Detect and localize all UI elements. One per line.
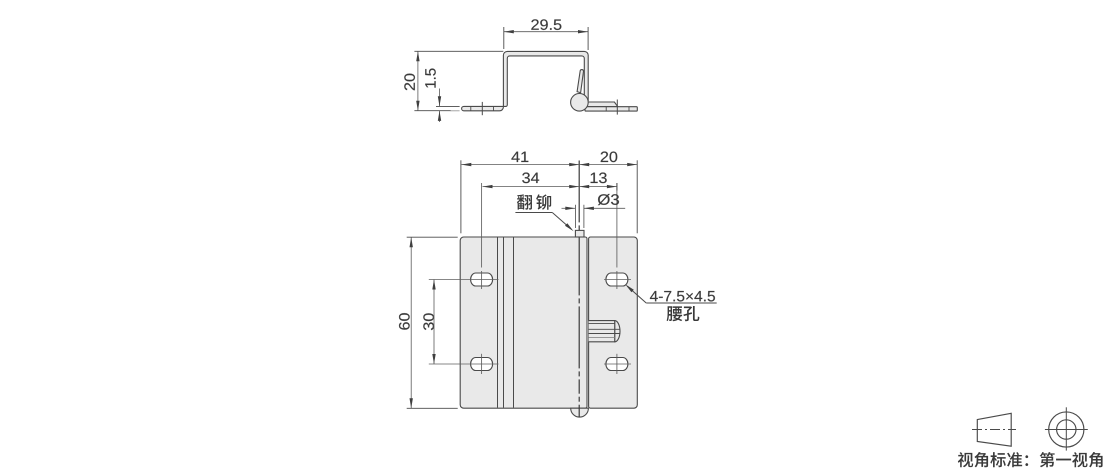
- dimension 60: [399, 313, 410, 330]
- dimension 34: [522, 173, 539, 184]
- top view: moving leaf upper strip: [585, 102, 618, 107]
- top view: right flange tick marks: [605, 107, 607, 111]
- front view: rivet head: [575, 230, 584, 237]
- dimension 20 (right plate): [601, 152, 618, 163]
- top view: left flange broken extension: [436, 106, 460, 108]
- dimension 41: [511, 152, 528, 162]
- top view: second leaf standing strip: [577, 70, 583, 93]
- front view: four slotted holes 7.5x4.5: [471, 273, 493, 286]
- top view: right flange: [585, 107, 637, 111]
- front view: right hinge plate: [589, 237, 638, 408]
- dimension 20 (profile height): [404, 74, 415, 91]
- front view: slot centerlines: [429, 279, 499, 281]
- first-angle projection cone symbol: [977, 413, 1011, 446]
- front view: pin centerline: [578, 161, 580, 223]
- top view: left flange tick marks (slot projection): [470, 106, 472, 110]
- front view: bend lines on left plate: [497, 237, 499, 407]
- top view: hinge pin circle: [571, 94, 589, 112]
- front view: left hinge plate: [460, 237, 587, 408]
- label fan-riveted (CJK): [517, 194, 532, 209]
- dimension 30: [423, 313, 434, 330]
- top view: hinge side profile (hat channel): [462, 51, 589, 110]
- caption: view standard first angle (CJK): [958, 452, 973, 467]
- front view: knurled pin insert: [615, 321, 620, 342]
- front view: pin bottom end: [571, 408, 589, 417]
- dimension 29.5: [531, 19, 561, 30]
- pin centerline lower end: [578, 405, 580, 418]
- dimension diameter 3: [598, 194, 619, 205]
- dimension 1.5 (thickness): [425, 69, 435, 88]
- dimension 13: [591, 173, 607, 184]
- first-angle projection circles symbol: [1049, 412, 1084, 447]
- label 4-7.5x4.5 slots: [650, 291, 715, 301]
